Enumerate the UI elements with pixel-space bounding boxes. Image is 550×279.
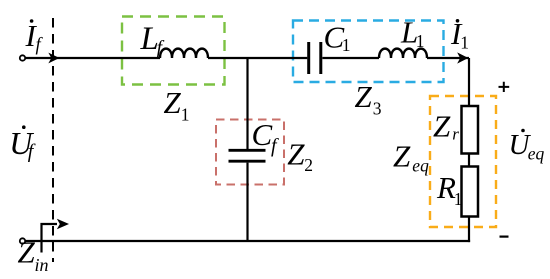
svg-text:eq: eq: [528, 144, 545, 164]
impedance Zr: [462, 106, 479, 154]
box Zeq (orange dashed): [430, 96, 496, 227]
box Z2 (red dashed): [216, 120, 284, 185]
box Z1 (green dashed): [122, 17, 225, 85]
wire top left: [26, 57, 161, 59]
svg-text:Z: Z: [355, 79, 373, 114]
terminal top: [20, 55, 25, 60]
svg-text:1: 1: [181, 105, 190, 125]
svg-text:Z: Z: [433, 109, 451, 144]
svg-text:3: 3: [373, 99, 382, 119]
inductor Lf: [160, 49, 208, 58]
resistor R1: [462, 167, 479, 217]
arrowhead If: [49, 54, 58, 63]
wire between Zr and R1: [468, 154, 470, 167]
dashed measurement line: [52, 18, 54, 262]
svg-text:C: C: [252, 117, 273, 152]
wire between C1 and L1: [322, 57, 379, 59]
svg-text:2: 2: [304, 155, 313, 175]
svg-text:1: 1: [454, 189, 463, 209]
plus sign: [499, 82, 510, 92]
svg-text:eq: eq: [412, 156, 429, 176]
wire L1 to corner: [427, 57, 469, 59]
svg-text:Z: Z: [393, 139, 411, 174]
arrow Zin (elbow): [42, 224, 58, 253]
wire right vertical lower: [468, 217, 470, 243]
wire middle vertical lower: [246, 163, 248, 241]
svg-text:Z: Z: [164, 85, 182, 120]
capacitor C1: [307, 42, 310, 74]
box Z3 (blue dashed): [293, 21, 444, 83]
wire between Lf and C1: [208, 57, 307, 59]
svg-text:r: r: [452, 125, 459, 144]
svg-text:1: 1: [342, 35, 351, 55]
svg-text:in: in: [35, 255, 49, 275]
arrowhead I1: [458, 53, 467, 62]
svg-text:Z: Z: [18, 235, 36, 270]
wire bottom: [26, 240, 471, 242]
capacitor Cf: [229, 149, 266, 152]
inductor L1: [379, 49, 427, 58]
minus sign: [500, 236, 509, 238]
svg-text:Z: Z: [287, 137, 305, 172]
svg-text:1: 1: [416, 31, 425, 51]
wire right vertical upper: [468, 58, 470, 107]
wire middle vertical upper: [246, 58, 248, 149]
terminal bottom: [20, 238, 25, 243]
svg-text:1: 1: [460, 33, 469, 53]
